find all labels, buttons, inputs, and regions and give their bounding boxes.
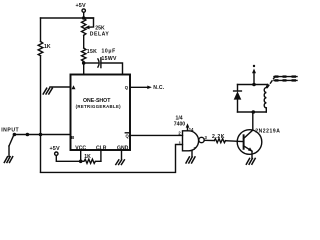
wire relay top rail bbox=[238, 84, 268, 86]
+5V terminal circle (top) bbox=[82, 9, 85, 12]
wire capacitor to box top right bbox=[101, 63, 123, 75]
svg-text:14: 14 bbox=[189, 127, 194, 132]
ground (box GND pin) bbox=[116, 160, 125, 165]
wire input line to box pin B bbox=[14, 134, 70, 136]
wire bottom feedback rail bbox=[41, 145, 183, 173]
relay coil K1 loops bbox=[264, 88, 266, 108]
wire between pot and 15K bbox=[83, 35, 85, 48]
resistor 1K (CLR pull-up) bbox=[81, 159, 101, 163]
pin 14 supply wire bbox=[187, 126, 189, 131]
nand gate U2 body bbox=[183, 131, 199, 151]
svg-text:GND: GND bbox=[117, 145, 129, 151]
svg-text:N.C.: N.C. bbox=[153, 85, 165, 91]
wire timing node down into box top bbox=[83, 62, 85, 75]
node dot on input line bbox=[26, 133, 30, 137]
resistor 2.2K bbox=[214, 139, 225, 143]
supply arrowhead up (relay V+) bbox=[252, 69, 256, 74]
resistor 1K (pull-up, left) bbox=[38, 42, 43, 56]
pin A mark (trigger input) bbox=[72, 85, 76, 89]
ground (switch) bbox=[4, 157, 12, 163]
arrowhead N.C. bbox=[147, 86, 152, 90]
wire 2.2K to base bbox=[226, 140, 238, 143]
pin Qbar overbar bbox=[125, 132, 128, 134]
diode D1 triangle bbox=[234, 91, 242, 99]
pin CLR wire bbox=[100, 150, 102, 161]
svg-text:2.2K: 2.2K bbox=[212, 134, 225, 140]
node junction relay top rail bbox=[252, 83, 256, 87]
svg-text:+5V: +5V bbox=[76, 3, 86, 9]
resistor 15K (timing) bbox=[82, 48, 86, 62]
relay coil K1 top wire bbox=[266, 85, 267, 88]
pin 14 arrowhead up bbox=[186, 123, 190, 127]
switch S1 lever bbox=[9, 136, 13, 146]
transistor collector stroke bbox=[244, 131, 252, 139]
svg-text:1K: 1K bbox=[84, 154, 91, 160]
svg-text:15WV: 15WV bbox=[102, 56, 118, 62]
svg-text:1K: 1K bbox=[44, 44, 51, 50]
svg-text:15K: 15K bbox=[87, 49, 97, 55]
node junction timing node bbox=[82, 61, 86, 65]
svg-text:B: B bbox=[71, 135, 74, 140]
pin 7 wire bbox=[191, 151, 193, 157]
wire emitter down bbox=[251, 151, 253, 158]
diode D1 cathode bar bbox=[234, 90, 242, 92]
pin VCC wire bbox=[80, 150, 82, 161]
wire left vertical upper segment bbox=[40, 18, 42, 42]
svg-text:+5V: +5V bbox=[50, 146, 60, 152]
ground (gate pin 7) bbox=[186, 157, 195, 163]
relay contact lower blobs bbox=[275, 79, 297, 81]
relay contact upper blobs bbox=[275, 75, 297, 77]
transistor Q1 circle bbox=[237, 130, 262, 155]
svg-text:7400: 7400 bbox=[174, 122, 185, 128]
wire Qbar to gate input pin 2 bbox=[130, 134, 183, 136]
wire top rail horizontal bbox=[41, 17, 94, 19]
transistor base bar bbox=[243, 135, 245, 149]
emitter arrowhead bbox=[248, 147, 253, 151]
diode D1 cathode wire bbox=[237, 85, 239, 92]
relay contact upper bar bbox=[274, 76, 297, 78]
wire collector up to relay rail bbox=[252, 112, 254, 130]
potentiometer 25K DELAY body bbox=[82, 18, 86, 35]
svg-text:INPUT: INPUT bbox=[1, 127, 19, 133]
pin GND wire bbox=[121, 150, 123, 159]
svg-text:2N2219A: 2N2219A bbox=[255, 129, 280, 135]
relay contact lower bar bbox=[274, 79, 297, 81]
ground (pin A) bbox=[43, 88, 52, 94]
capacitor 10uF straight plate bbox=[100, 58, 102, 68]
wire timing node to capacitor bbox=[84, 62, 98, 64]
supply dot above arrow (relay V+) bbox=[253, 65, 255, 67]
ground (emitter) bbox=[246, 158, 255, 164]
wire Q output to N.C. bbox=[130, 86, 150, 88]
diode D1 anode wire bbox=[237, 100, 239, 112]
+5V terminal circle (bottom) bbox=[55, 152, 58, 155]
wire relay bottom rail bbox=[238, 111, 267, 113]
wire left vertical lower segment bbox=[40, 56, 42, 172]
one-shot IC box U1 bbox=[71, 75, 131, 151]
wire +5V to VCC node bbox=[56, 155, 80, 161]
node junction collector / relay bbox=[252, 110, 256, 114]
wire from +5V terminal down to top rail bbox=[83, 12, 85, 18]
relay linkage dashed line bbox=[267, 75, 276, 88]
svg-text:ONE-SHOT: ONE-SHOT bbox=[83, 98, 111, 104]
nand gate output bubble bbox=[199, 137, 204, 142]
pin A ground wire bbox=[50, 86, 71, 88]
relay coil K1 bottom wire bbox=[265, 108, 267, 112]
node junction top rail / pot bbox=[82, 16, 86, 20]
capacitor 10uF curved plate bbox=[98, 59, 99, 67]
node junction input line / left vertical bbox=[39, 133, 43, 137]
transistor base wire inside bbox=[237, 140, 243, 142]
potentiometer wiper arrowhead bbox=[85, 25, 90, 29]
potentiometer wiper loop wire bbox=[84, 18, 94, 27]
switch S1 terminal dot bbox=[13, 133, 17, 137]
wire gate output to 2.2K bbox=[204, 139, 214, 141]
svg-text:(RETRIGGERABLE): (RETRIGGERABLE) bbox=[76, 104, 122, 109]
svg-text:DELAY: DELAY bbox=[90, 32, 110, 38]
wire supply arrow to relay top rail bbox=[253, 73, 255, 85]
node junction VCC bbox=[79, 160, 83, 164]
svg-text:10μF: 10μF bbox=[102, 49, 116, 55]
transistor emitter stroke bbox=[244, 146, 252, 151]
switch S1 lower wire bbox=[8, 146, 10, 157]
